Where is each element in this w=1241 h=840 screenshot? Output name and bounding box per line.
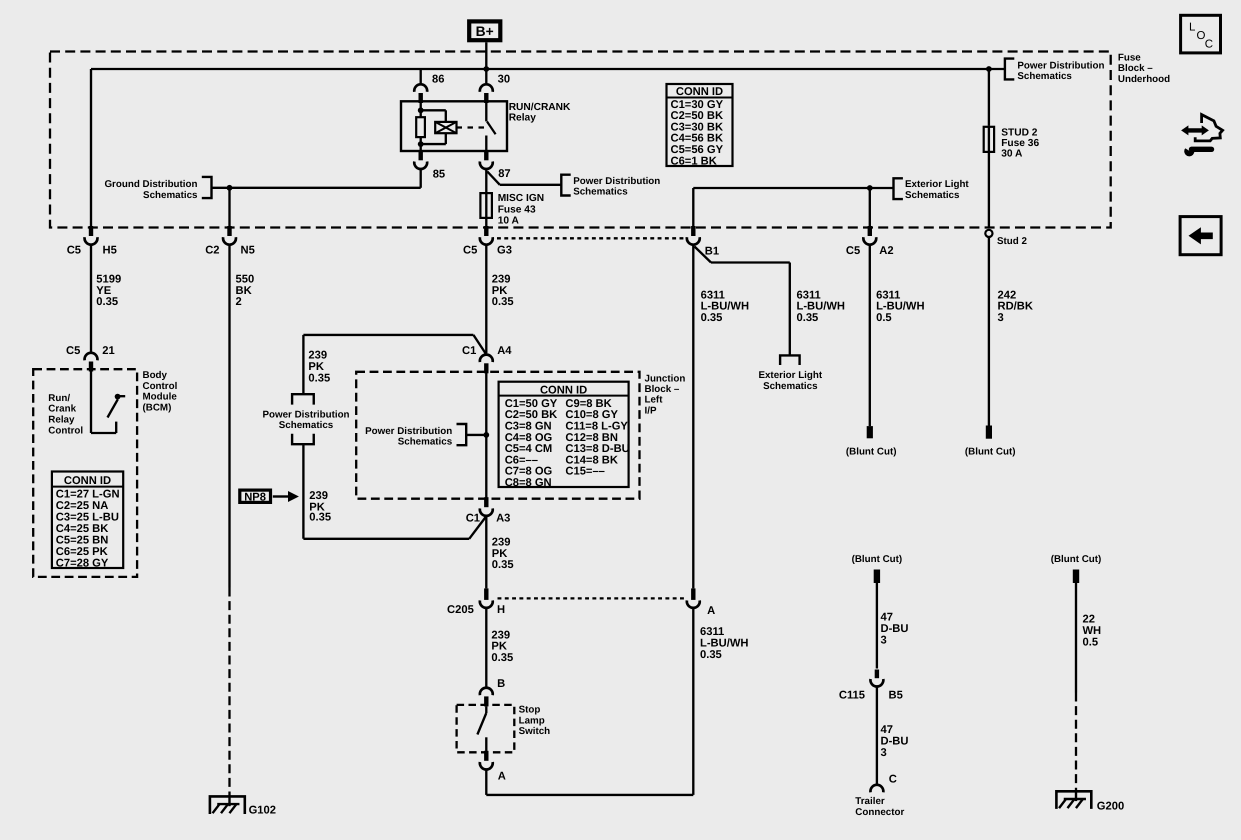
svg-text:0.35: 0.35 (492, 559, 514, 571)
svg-text:Connector: Connector (855, 807, 904, 818)
svg-text:L-BU/WH: L-BU/WH (700, 638, 748, 650)
wire 6311 below A label (700, 626, 748, 661)
wire branch to power distribution (303, 335, 486, 394)
svg-text:C2=50 BK: C2=50 BK (671, 110, 724, 122)
relay label (509, 102, 571, 124)
svg-text:L-BU/WH: L-BU/WH (797, 301, 845, 313)
svg-text:BK: BK (236, 285, 252, 297)
svg-text:D-BU: D-BU (881, 623, 909, 635)
wire 239 PK C205 to stop lamp switch (486, 608, 513, 687)
svg-text:D-BU: D-BU (881, 736, 909, 748)
NP8 option flag (240, 490, 299, 503)
connector A stop lamp (480, 751, 506, 783)
wire 550 BK (230, 245, 255, 588)
svg-text:G102: G102 (249, 804, 276, 816)
svg-text:G200: G200 (1097, 800, 1124, 812)
svg-text:C7=28 GY: C7=28 GY (56, 558, 109, 570)
svg-text:0.35: 0.35 (309, 511, 331, 523)
relay coil (421, 110, 457, 144)
blunt cut G200 (1051, 554, 1102, 583)
svg-text:G3: G3 (497, 245, 512, 257)
wire 47 D-BU lower (877, 687, 909, 785)
svg-text:C6=1 BK: C6=1 BK (671, 155, 717, 167)
connector C5/H5 (67, 226, 117, 257)
trailer connector C (855, 774, 904, 819)
stud 2 terminal (985, 230, 1027, 247)
svg-text:6311: 6311 (797, 289, 821, 301)
svg-text:Run/: Run/ (48, 393, 70, 404)
wire 47 D-BU upper (877, 583, 909, 669)
relay armature link (457, 126, 487, 128)
BCM driver switch (91, 372, 125, 434)
svg-text:A: A (707, 605, 715, 617)
Power Distribution Schematics ref top right (989, 59, 1105, 82)
svg-text:(Blunt Cut): (Blunt Cut) (965, 446, 1016, 457)
wire bus right to stud2 fuse (486, 69, 989, 126)
svg-text:30 A: 30 A (1001, 149, 1023, 160)
svg-text:A2: A2 (879, 245, 893, 257)
node relay coil bottom (418, 141, 424, 147)
svg-text:PK: PK (491, 641, 507, 653)
svg-text:0.35: 0.35 (308, 373, 330, 385)
svg-text:C12=8 BN: C12=8 BN (565, 432, 618, 444)
svg-text:C11=8 L-GY: C11=8 L-GY (565, 421, 628, 433)
svg-text:C1=30 GY: C1=30 GY (671, 99, 724, 111)
svg-text:0.5: 0.5 (876, 312, 892, 324)
svg-text:Schematics: Schematics (573, 187, 628, 198)
wire 239 PK upper label (308, 349, 330, 384)
wire 6311 A2 to blunt cut (870, 245, 925, 426)
wire B+ down to bus (485, 42, 487, 83)
vehicle info icon (1181, 115, 1223, 157)
wire A4 to A3 inside junction block (485, 372, 487, 499)
connector A harness (687, 588, 715, 616)
svg-text:Module: Module (143, 392, 178, 403)
fuse block CONN ID table (667, 84, 733, 167)
svg-text:550: 550 (236, 273, 255, 285)
svg-text:47: 47 (881, 724, 893, 736)
node stud2 branch junction (986, 66, 992, 72)
svg-text:239: 239 (492, 536, 511, 548)
svg-text:Stud 2: Stud 2 (997, 236, 1027, 247)
svg-text:0.5: 0.5 (1083, 637, 1099, 649)
svg-text:0.35: 0.35 (492, 296, 514, 308)
svg-text:C1=50 GY: C1=50 GY (505, 398, 558, 410)
svg-text:B+: B+ (476, 24, 494, 39)
power distribution schematics component (262, 394, 349, 444)
svg-text:H5: H5 (103, 245, 117, 257)
svg-text:Lamp: Lamp (519, 715, 545, 726)
svg-text:0.35: 0.35 (700, 649, 722, 661)
svg-text:L: L (1189, 21, 1196, 33)
svg-text:A: A (498, 771, 506, 783)
Exterior Light Schematics ref top (693, 178, 969, 201)
Stop Lamp Switch label (519, 704, 551, 737)
back arrow icon (1180, 217, 1221, 255)
wire 242 RD/BK (989, 237, 1033, 426)
svg-text:PK: PK (308, 361, 324, 373)
svg-text:(Blunt Cut): (Blunt Cut) (1051, 554, 1102, 565)
svg-text:Stop: Stop (519, 704, 541, 715)
svg-text:C9=8 BK: C9=8 BK (565, 398, 611, 410)
svg-text:C15=––: C15=–– (565, 466, 605, 478)
ground G102 (210, 796, 276, 816)
connector C115/B5 (839, 670, 903, 702)
svg-text:B5: B5 (889, 690, 903, 702)
svg-text:86: 86 (432, 73, 444, 85)
wire 239 PK lower label (309, 490, 331, 523)
svg-text:C1: C1 (466, 512, 480, 524)
svg-text:21: 21 (102, 345, 114, 357)
svg-text:RD/BK: RD/BK (998, 301, 1033, 313)
svg-text:Power Distribution: Power Distribution (1017, 60, 1104, 71)
svg-text:239: 239 (308, 349, 327, 361)
wire stop lamp to A harness (486, 608, 693, 795)
wire 22 WH dashed to ground (1075, 693, 1077, 792)
Ground Distribution Schematics ref (104, 177, 211, 201)
wire NP8 branch return (303, 444, 485, 539)
svg-text:PK: PK (492, 548, 508, 560)
svg-text:C1: C1 (462, 345, 476, 357)
svg-text:Control: Control (143, 381, 178, 392)
svg-text:C5: C5 (66, 345, 80, 357)
svg-text:C: C (889, 774, 897, 786)
svg-text:C14=8 BK: C14=8 BK (565, 454, 618, 466)
svg-text:3: 3 (881, 747, 887, 759)
node exterior light junction (867, 185, 873, 191)
svg-text:Control: Control (48, 426, 83, 437)
fuse STUD 2 Fuse 36 30A (984, 126, 1040, 228)
svg-text:L-BU/WH: L-BU/WH (701, 301, 749, 313)
stop lamp switch contacts (477, 706, 486, 752)
junction block CONN ID table (499, 382, 630, 489)
junction block dashed box (356, 372, 639, 499)
dotted harness line lower (498, 597, 686, 599)
relay suppression resistor (416, 117, 425, 137)
svg-text:Power Distribution: Power Distribution (573, 176, 660, 187)
svg-text:Body: Body (143, 370, 168, 381)
svg-text:0.35: 0.35 (491, 652, 513, 664)
Power Distribution Schematics ref junction block (365, 424, 486, 447)
svg-text:(Blunt Cut): (Blunt Cut) (852, 554, 903, 565)
Exterior Light Schematics ref mid (758, 355, 822, 392)
svg-text:RUN/CRANK: RUN/CRANK (509, 102, 571, 113)
svg-text:239: 239 (492, 273, 511, 285)
wire 239 PK G3 to A4 (486, 245, 513, 354)
svg-text:Exterior Light: Exterior Light (905, 179, 969, 190)
fuse MISC IGN Fuse 43 10A (480, 169, 544, 228)
LOC icon (1181, 15, 1221, 53)
svg-text:6311: 6311 (876, 289, 900, 301)
connector C5/G3 (463, 226, 512, 257)
node relay coil top (418, 107, 424, 113)
svg-text:C10=8 GY: C10=8 GY (565, 409, 618, 421)
svg-text:A3: A3 (496, 512, 510, 524)
power feed B+ terminal (469, 21, 500, 40)
svg-text:C5=56 GY: C5=56 GY (671, 144, 724, 156)
body control module dashed box (33, 369, 137, 577)
svg-text:C5=4 CM: C5=4 CM (505, 443, 553, 455)
wire B1 feed (692, 188, 694, 228)
svg-text:6311: 6311 (701, 289, 725, 301)
svg-text:(BCM): (BCM) (143, 403, 172, 414)
svg-text:Schematics: Schematics (1017, 71, 1072, 82)
svg-text:Relay: Relay (509, 113, 537, 124)
svg-text:10 A: 10 A (498, 215, 520, 226)
wire bus left to H5 column (91, 69, 486, 228)
svg-text:MISC IGN: MISC IGN (498, 193, 544, 204)
connector C1/A4 (462, 345, 512, 373)
wire 550 BK dashed to ground (228, 588, 230, 797)
svg-text:Crank: Crank (48, 404, 76, 415)
relay switch (486, 101, 495, 151)
node ground run junction (227, 185, 233, 191)
svg-text:Relay: Relay (48, 415, 75, 426)
svg-text:C3=25 L-BU: C3=25 L-BU (56, 511, 119, 523)
relay pin 87 connector (480, 150, 511, 180)
svg-text:Block –: Block – (645, 384, 680, 395)
svg-text:6311: 6311 (700, 626, 724, 638)
connector C2/N5 (205, 226, 255, 257)
svg-text:C2=50 BK: C2=50 BK (505, 409, 558, 421)
relay RUN/CRANK box (401, 101, 507, 151)
svg-text:Trailer: Trailer (855, 796, 885, 807)
svg-text:L-BU/WH: L-BU/WH (876, 301, 924, 313)
wire ground run down to N5 (228, 188, 230, 228)
svg-text:C2: C2 (205, 245, 219, 257)
svg-text:B: B (497, 678, 505, 690)
svg-text:C7=8 OG: C7=8 OG (505, 466, 553, 478)
blunt cut trailer (852, 554, 903, 583)
svg-text:I/P: I/P (645, 405, 657, 416)
BCM label (143, 370, 178, 414)
svg-text:Schematics: Schematics (398, 436, 453, 447)
svg-text:239: 239 (491, 629, 510, 641)
connector B1 (687, 226, 719, 258)
node junction block tap (483, 432, 489, 438)
wire 239 PK A3 to C205 (486, 516, 513, 589)
svg-text:87: 87 (498, 168, 510, 180)
svg-text:C5: C5 (846, 245, 860, 257)
svg-text:C205: C205 (447, 604, 474, 616)
svg-text:2: 2 (236, 296, 242, 308)
connector C5/21 (66, 345, 115, 372)
svg-text:22: 22 (1083, 614, 1095, 626)
svg-text:C5=25 BN: C5=25 BN (56, 535, 109, 547)
svg-text:C4=25 BK: C4=25 BK (56, 523, 109, 535)
svg-text:CONN ID: CONN ID (540, 384, 587, 396)
svg-text:C4=8 OG: C4=8 OG (505, 432, 553, 444)
connector C205/H (447, 588, 505, 616)
svg-text:H: H (497, 604, 505, 616)
svg-text:Schematics: Schematics (143, 190, 198, 201)
svg-text:STUD 2: STUD 2 (1001, 127, 1038, 138)
svg-text:PK: PK (492, 285, 508, 297)
Run/Crank Relay Control label (48, 393, 83, 437)
svg-text:Underhood: Underhood (1118, 74, 1170, 85)
connector C5/A2 (846, 226, 894, 257)
BCM CONN ID table (52, 472, 123, 570)
svg-text:N5: N5 (241, 245, 255, 257)
svg-text:47: 47 (881, 612, 893, 624)
connector C1/A3 (466, 497, 511, 524)
dotted harness line upper (497, 237, 685, 239)
svg-text:C6=––: C6=–– (505, 454, 538, 466)
svg-text:Schematics: Schematics (905, 190, 960, 201)
connector B stop lamp (480, 678, 505, 707)
relay pin 30 connector (480, 73, 510, 103)
svg-text:NP8: NP8 (244, 491, 266, 503)
svg-text:Power Distribution: Power Distribution (262, 409, 349, 420)
Power Distribution Schematics ref mid (487, 172, 660, 198)
svg-text:Schematics: Schematics (763, 381, 818, 392)
svg-text:Left: Left (645, 395, 664, 406)
svg-text:239: 239 (309, 490, 328, 502)
wire A2 feed (869, 188, 871, 228)
svg-text:C6=25 PK: C6=25 PK (56, 546, 108, 558)
relay coil bottom wire (420, 137, 422, 151)
svg-text:C1=27 L-GN: C1=27 L-GN (56, 488, 120, 500)
wire 5199 YE (91, 245, 121, 353)
stop lamp switch dashed box (457, 705, 515, 752)
svg-text:Fuse 36: Fuse 36 (1001, 138, 1039, 149)
svg-text:Fuse 43: Fuse 43 (498, 204, 536, 215)
Fuse Block Underhood label (1118, 52, 1170, 85)
wire 6311 B1 main (693, 245, 749, 588)
svg-text:30: 30 (498, 73, 510, 85)
svg-text:0.35: 0.35 (797, 312, 819, 324)
ground G200 (1056, 791, 1124, 812)
svg-text:A4: A4 (497, 345, 512, 357)
svg-text:3: 3 (881, 634, 887, 646)
wire ground distribution run (212, 169, 421, 187)
svg-text:C4=56 BK: C4=56 BK (671, 133, 724, 145)
blunt cut A2 (846, 426, 897, 457)
svg-text:C3=30 BK: C3=30 BK (671, 121, 724, 133)
wire 22 WH (1076, 583, 1101, 693)
svg-text:Schematics: Schematics (279, 420, 334, 431)
node bus junction (483, 66, 489, 72)
svg-text:Junction: Junction (645, 373, 686, 384)
relay coil feed wire (420, 102, 422, 117)
wire 6311 branch to exterior light (695, 247, 845, 356)
svg-text:C: C (1205, 39, 1213, 51)
fuse block underhood dashed box (50, 52, 1111, 228)
svg-text:Fuse: Fuse (1118, 52, 1141, 63)
svg-text:Block –: Block – (1118, 63, 1153, 74)
svg-text:5199: 5199 (96, 273, 121, 285)
svg-text:C5: C5 (463, 245, 477, 257)
svg-text:YE: YE (96, 285, 111, 297)
svg-text:C2=25 NA: C2=25 NA (56, 500, 109, 512)
svg-text:C8=8 GN: C8=8 GN (505, 477, 552, 489)
svg-text:Switch: Switch (519, 726, 551, 737)
svg-text:CONN ID: CONN ID (676, 86, 723, 98)
svg-text:85: 85 (433, 168, 445, 180)
svg-text:3: 3 (998, 312, 1004, 324)
svg-text:242: 242 (998, 289, 1017, 301)
svg-text:C115: C115 (839, 690, 865, 702)
svg-text:(Blunt Cut): (Blunt Cut) (846, 446, 897, 457)
svg-text:WH: WH (1083, 625, 1102, 637)
svg-text:B1: B1 (705, 246, 719, 258)
blunt cut stud 2 (965, 426, 1016, 458)
svg-text:C3=8 GN: C3=8 GN (505, 421, 552, 433)
Junction Block Left I/P label (645, 373, 686, 416)
svg-text:CONN ID: CONN ID (64, 475, 111, 487)
svg-text:Exterior Light: Exterior Light (758, 370, 822, 381)
svg-text:Ground Distribution: Ground Distribution (104, 179, 197, 190)
svg-text:0.35: 0.35 (96, 296, 118, 308)
relay pin 86 connector (414, 69, 444, 103)
svg-text:C13=8 D-BU: C13=8 D-BU (565, 443, 629, 455)
svg-text:0.35: 0.35 (701, 312, 723, 324)
svg-text:C5: C5 (67, 245, 81, 257)
relay pin 85 connector (414, 150, 445, 180)
